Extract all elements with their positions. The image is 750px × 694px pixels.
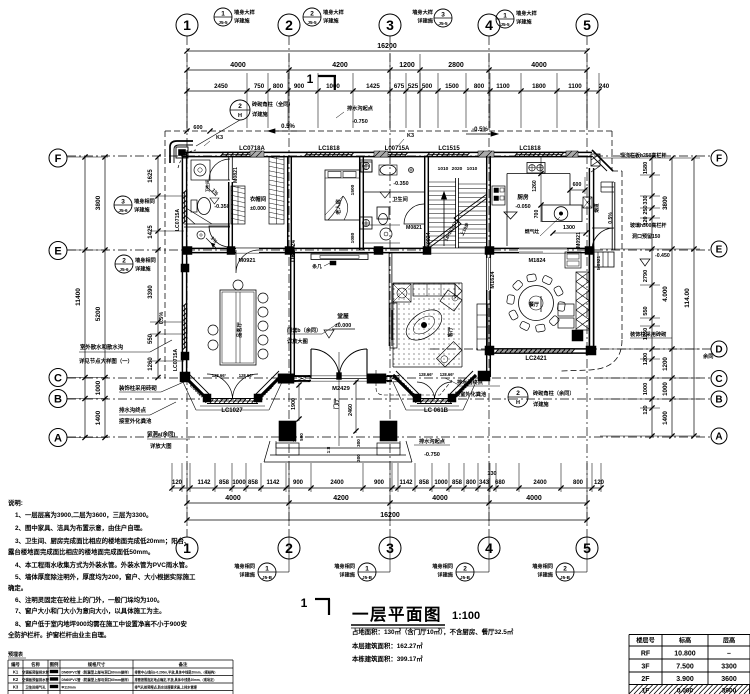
pier E wall 3 <box>285 247 294 255</box>
note yutong right <box>702 352 713 360</box>
kitchen dim 600 <box>567 177 587 194</box>
svg-text:2F: 2F <box>641 676 650 683</box>
svg-text:114.00: 114.00 <box>684 288 691 308</box>
bay1 labels <box>188 383 276 414</box>
svg-text:680: 680 <box>495 480 506 486</box>
section mark 1 top <box>307 72 336 90</box>
pier E wall 7 <box>585 247 594 255</box>
svg-text:1: 1 <box>221 11 225 18</box>
svg-text:洞口预留150: 洞口预留150 <box>632 233 661 240</box>
window LC2421 <box>495 349 574 362</box>
cabinet living dining <box>477 304 488 350</box>
svg-text:1、一层层高为3900,二层为3600，三层为3300。: 1、一层层高为3900,二层为3600，三层为3300。 <box>15 510 152 519</box>
svg-text:卫生间: 卫生间 <box>392 195 408 203</box>
axis bubble C left <box>49 369 67 387</box>
door M0821 bath1 <box>209 159 239 183</box>
bay2 outer sill <box>393 382 476 410</box>
svg-text:预埋表: 预埋表 <box>8 651 24 658</box>
svg-text:条几: 条几 <box>311 263 322 270</box>
svg-text:E: E <box>716 245 723 256</box>
svg-text:2800: 2800 <box>448 62 464 69</box>
door center line <box>338 352 340 446</box>
svg-text:餐厅: 餐厅 <box>528 301 539 308</box>
svg-text:空调板预留排水管: 空调板预留排水管 <box>22 677 50 682</box>
svg-text:-0.5%: -0.5% <box>472 127 488 133</box>
svg-text:0.000: 0.000 <box>677 688 694 694</box>
svg-text:128.66°: 128.66° <box>440 372 455 377</box>
axis line F <box>67 155 711 157</box>
svg-text:RF: RF <box>641 651 651 658</box>
svg-text:2400: 2400 <box>533 480 547 486</box>
area notes <box>352 627 514 663</box>
svg-text:1625: 1625 <box>148 169 154 183</box>
svg-text:DN60PVC管（防漏型上部与洞口60mm做样）: DN60PVC管（防漏型上部与洞口60mm做样） <box>62 677 132 682</box>
decor box living <box>393 284 411 302</box>
chaise living <box>437 342 462 367</box>
detail callout 1/J5-B bottom 1 <box>234 537 289 581</box>
kitchen flue <box>583 197 600 213</box>
label meeting room <box>235 321 243 337</box>
wall dining bottom <box>489 349 594 353</box>
svg-text:-0.350: -0.350 <box>393 181 408 187</box>
wall bath2 stair <box>425 156 429 250</box>
slope right porch <box>608 212 614 224</box>
svg-text:LC1818: LC1818 <box>519 146 541 152</box>
sideboard dining <box>558 304 574 328</box>
shaft box bottom <box>360 217 372 229</box>
svg-text:留洞a(余同): 留洞a(余同) <box>147 430 175 438</box>
bath1 slope arrow <box>206 186 220 197</box>
svg-text:详建施: 详建施 <box>537 571 553 579</box>
label cloakroom <box>250 195 267 212</box>
svg-text:1: 1 <box>365 566 369 573</box>
svg-text:K2: K2 <box>13 677 19 682</box>
svg-text:800: 800 <box>573 480 584 486</box>
svg-text:120: 120 <box>172 480 183 486</box>
axis line 4 <box>488 36 490 537</box>
pier C a <box>278 374 294 384</box>
bath2 sink <box>379 165 397 175</box>
note glass right <box>630 222 666 240</box>
svg-text:1142: 1142 <box>399 480 413 486</box>
svg-text:玻璃h300高栏杆: 玻璃h300高栏杆 <box>630 222 666 229</box>
pier lattice bottom <box>572 330 583 341</box>
east porch steps bottom <box>594 252 614 270</box>
pier C b <box>367 374 386 384</box>
svg-text:厨房: 厨房 <box>517 193 529 201</box>
extension lines right <box>600 158 700 436</box>
svg-text:E: E <box>54 246 61 258</box>
note deco column left <box>118 381 186 392</box>
svg-text:1500: 1500 <box>445 83 459 90</box>
dimension row 16200 bottom <box>184 512 589 523</box>
svg-text:1400: 1400 <box>95 410 102 425</box>
svg-text:砖砌角柱（余同）: 砖砌角柱（余同） <box>533 389 575 397</box>
axis bubble A right <box>711 428 727 444</box>
svg-text:规格尺寸: 规格尺寸 <box>88 661 106 668</box>
svg-text:1100: 1100 <box>568 83 582 90</box>
door M0821 bath2 <box>404 204 424 231</box>
svg-text:3900: 3900 <box>722 688 737 694</box>
svg-text:LC1515: LC1515 <box>438 146 460 152</box>
note drain start top <box>336 104 374 125</box>
bath2 drain <box>409 168 414 173</box>
svg-text:900: 900 <box>374 480 385 486</box>
svg-text:M0821: M0821 <box>406 225 422 231</box>
svg-text:详建施: 详建施 <box>339 571 355 579</box>
pier bay1 win l <box>203 394 211 402</box>
svg-text:300: 300 <box>356 454 361 462</box>
svg-text:全防护栏杆。护窗栏杆由业主自理。: 全防护栏杆。护窗栏杆由业主自理。 <box>7 630 110 639</box>
svg-text:M1824: M1824 <box>528 258 546 264</box>
svg-text:5200: 5200 <box>95 306 102 321</box>
axis bubble 3 top <box>379 14 401 36</box>
svg-text:2: 2 <box>122 258 126 265</box>
svg-text:烟道: 烟道 <box>593 203 600 213</box>
wall E interior <box>182 248 594 252</box>
rug living <box>401 304 448 347</box>
svg-text:楼层号: 楼层号 <box>636 637 655 645</box>
svg-text:确定。: 确定。 <box>8 583 27 592</box>
svg-text:11400: 11400 <box>75 288 82 306</box>
svg-text:858: 858 <box>219 480 230 486</box>
detail callout 2/J5-B bottom 3 <box>432 537 489 581</box>
svg-text:1: 1 <box>307 72 314 86</box>
svg-text:1200: 1200 <box>399 62 415 69</box>
pier bay2 right <box>478 371 490 381</box>
pier dining se <box>586 346 596 355</box>
svg-text:1010: 1010 <box>467 166 478 172</box>
wall hall front <box>294 376 392 381</box>
general notes text <box>7 498 196 639</box>
bedroom dim 1080 <box>350 184 356 243</box>
svg-text:343: 343 <box>479 480 490 486</box>
svg-text:一层平面图: 一层平面图 <box>352 605 442 624</box>
note hole left <box>147 430 190 450</box>
svg-text:525: 525 <box>408 83 419 90</box>
svg-text:2: 2 <box>285 17 293 33</box>
dimension row 16200 top <box>184 43 589 54</box>
label kitchen <box>504 193 531 219</box>
axis bubble 2 top <box>278 14 300 36</box>
pier bay1 left <box>180 372 190 382</box>
svg-text:排管中心线向s-0.200m,平放,具体中线是20mm,（视: 排管中心线向s-0.200m,平放,具体中线是20mm,（视结构） <box>135 670 218 675</box>
opening DK0924 <box>426 232 432 251</box>
svg-text:LC0715A: LC0715A <box>173 349 179 371</box>
pier bay1 win r <box>254 394 262 402</box>
svg-text:4、本工程雨水收集方式为外装水管。外装水管为PVC雨水管。: 4、本工程雨水收集方式为外装水管。外装水管为PVC雨水管。 <box>15 560 191 569</box>
svg-text:5、墙体厚度除注明外，厚度均为200，窗户、大小根据实际施工: 5、墙体厚度除注明外，厚度均为200，窗户、大小根据实际施工 <box>15 572 196 581</box>
detail callout 3/J5-6 left <box>114 196 155 214</box>
svg-text:J5-6: J5-6 <box>118 208 128 213</box>
sofa corner <box>440 290 462 311</box>
axis line B <box>67 398 711 400</box>
detail callout 2/J5-B bottom 4 <box>532 537 587 581</box>
svg-text:550: 550 <box>643 306 649 315</box>
svg-text:M0921: M0921 <box>596 256 601 270</box>
svg-text:排气孔按预埋点,防水处理要求高,上排水管理: 排气孔按预埋点,防水处理要求高,上排水管理 <box>135 685 198 690</box>
svg-text:4200: 4200 <box>333 495 349 502</box>
svg-text:1260: 1260 <box>148 357 154 371</box>
svg-text:标高: 标高 <box>678 637 691 645</box>
svg-text:C: C <box>54 373 62 385</box>
window sill hatch a <box>250 151 264 157</box>
note railing right <box>620 152 666 159</box>
svg-text:详建施: 详建施 <box>323 17 339 25</box>
svg-text:700: 700 <box>534 210 540 219</box>
svg-text:1425: 1425 <box>148 225 154 239</box>
svg-text:1260: 1260 <box>532 180 538 192</box>
svg-text:DN60PVC管（防漏型上部与洞口60mm做样）: DN60PVC管（防漏型上部与洞口60mm做样） <box>62 670 132 675</box>
bay1 wall right diag <box>255 371 282 399</box>
wall bedroom shaft <box>360 156 364 250</box>
svg-text:1000: 1000 <box>232 480 246 486</box>
svg-text:K3: K3 <box>13 685 19 690</box>
window LC1818 b <box>514 146 563 157</box>
svg-text:B: B <box>54 394 62 406</box>
svg-text:DK0924: DK0924 <box>426 232 432 251</box>
svg-text:装饰柱采用砖砌: 装饰柱采用砖砌 <box>630 330 666 338</box>
axis bubble 5 top <box>576 14 598 36</box>
bath1 sink <box>191 160 210 180</box>
svg-text:本栋建筑面积：399.17㎡: 本栋建筑面积：399.17㎡ <box>352 654 423 663</box>
svg-text:1: 1 <box>183 17 191 33</box>
svg-text:1: 1 <box>301 596 308 610</box>
svg-text:128.66°: 128.66° <box>239 373 254 378</box>
svg-text:M0921: M0921 <box>576 232 582 248</box>
svg-text:4: 4 <box>485 17 493 33</box>
door M0921 kitchen <box>576 228 614 250</box>
bay1 wall left diag <box>183 371 210 399</box>
svg-text:墙身相同: 墙身相同 <box>135 256 156 264</box>
svg-text:858: 858 <box>248 480 259 486</box>
dimension col 3 right <box>643 155 655 438</box>
svg-text:750: 750 <box>254 83 265 90</box>
svg-text:K3: K3 <box>407 133 414 139</box>
svg-text:3: 3 <box>121 199 125 206</box>
living room carpet dots <box>393 283 459 364</box>
svg-text:1142: 1142 <box>197 480 211 486</box>
svg-text:详建施: 详建施 <box>234 17 250 25</box>
floor level table <box>629 635 750 694</box>
svg-text:F: F <box>716 154 722 165</box>
bath2 level <box>393 181 408 187</box>
dimension row A bottom <box>169 471 604 491</box>
svg-text:2、图中家具、洁具为布置示意，由住户自理。: 2、图中家具、洁具为布置示意，由住户自理。 <box>15 523 146 532</box>
svg-text:J5-B: J5-B <box>560 575 571 580</box>
section mark 1 bottom <box>301 596 330 615</box>
kitchen dim 1300 <box>550 225 588 236</box>
svg-text:详放大图: 详放大图 <box>150 442 172 450</box>
svg-text:C: C <box>715 374 722 385</box>
meeting table and chairs <box>208 280 268 365</box>
svg-text:1500: 1500 <box>350 184 356 195</box>
opening M0921 hall <box>236 248 259 273</box>
svg-text:J5-5: J5-5 <box>438 21 448 26</box>
wall living dining divider <box>487 252 491 377</box>
svg-text:2460: 2460 <box>348 404 354 416</box>
svg-text:1200: 1200 <box>662 357 669 371</box>
svg-text:A: A <box>715 432 722 443</box>
svg-text:0.5%: 0.5% <box>159 312 165 325</box>
svg-text:图例: 图例 <box>50 661 59 668</box>
porch column right <box>377 421 400 455</box>
svg-text:墙身相同: 墙身相同 <box>532 562 553 570</box>
stair dims <box>438 166 478 242</box>
dimension row 3 top <box>184 83 609 94</box>
extension lines top <box>187 54 599 128</box>
svg-text:详放大图: 详放大图 <box>287 337 308 345</box>
svg-text:A: A <box>54 433 62 445</box>
svg-text:128.66°: 128.66° <box>212 373 227 378</box>
axis bubble 2 bottom <box>278 537 300 559</box>
axis bubble 3 bottom <box>379 537 401 559</box>
level mark -0.450 right <box>640 253 670 266</box>
svg-text:900: 900 <box>294 83 305 90</box>
detail callout 2/J5-5 top <box>303 8 345 26</box>
kitchen counter <box>507 157 570 246</box>
bath1 toilet <box>191 198 211 215</box>
label bath2 <box>392 195 408 203</box>
laundry room <box>197 231 219 248</box>
bath2 divider <box>364 225 400 243</box>
svg-text:500: 500 <box>299 433 304 441</box>
bay2 arcs <box>417 372 455 400</box>
sofa top <box>413 284 462 298</box>
dimension col 11400 right <box>684 155 697 438</box>
svg-text:M0821: M0821 <box>233 167 239 183</box>
svg-text:1F: 1F <box>642 688 650 694</box>
svg-text:7、窗户大小和门大小为意向大小，以具体施工为主。: 7、窗户大小和门大小为意向大小，以具体施工为主。 <box>15 606 166 615</box>
label stove <box>525 217 560 236</box>
svg-text:品茗厅: 品茗厅 <box>235 321 243 337</box>
svg-text:详建施: 详建施 <box>239 571 255 579</box>
svg-text:4000: 4000 <box>526 495 542 502</box>
detail callout 1/J5-5 top a <box>214 8 256 26</box>
wall stair kitchen <box>487 156 491 250</box>
svg-text:J5-B: J5-B <box>362 575 373 580</box>
svg-text:3300: 3300 <box>721 664 737 671</box>
dimension col 3 left <box>148 154 161 380</box>
exterior wall left upper <box>182 152 186 376</box>
svg-text:600: 600 <box>573 182 582 188</box>
svg-text:墙身大样: 墙身大样 <box>412 8 434 16</box>
svg-text:900: 900 <box>293 480 304 486</box>
pier bay2 win r <box>448 394 456 402</box>
note apron left <box>79 340 172 365</box>
svg-text:800: 800 <box>474 83 485 90</box>
wall bath1 partition <box>184 224 230 227</box>
svg-text:2: 2 <box>463 566 467 573</box>
sideboard hall <box>311 254 368 270</box>
svg-text:3: 3 <box>386 17 394 33</box>
svg-text:800: 800 <box>466 480 477 486</box>
sill window porch b <box>387 375 399 382</box>
note deco column right <box>630 330 672 338</box>
svg-text:J5-5: J5-5 <box>500 22 510 27</box>
wall bath1 cloak <box>229 156 233 250</box>
porch dims small <box>292 431 361 461</box>
svg-text:2: 2 <box>563 566 567 573</box>
svg-text:H: H <box>238 113 242 119</box>
note drain left <box>119 402 176 425</box>
svg-text:128.66°: 128.66° <box>419 372 434 377</box>
svg-text:5: 5 <box>583 17 591 33</box>
pier E wall 1 <box>183 247 192 255</box>
laundry door <box>209 226 230 247</box>
bay2 wall right diag <box>449 371 476 399</box>
svg-text:4.000: 4.000 <box>662 286 669 302</box>
east porch edge <box>601 182 615 250</box>
svg-text:H: H <box>516 400 520 406</box>
svg-text:墙身相同: 墙身相同 <box>334 562 355 570</box>
opening M1624 <box>487 258 496 290</box>
svg-text:墙身大样: 墙身大样 <box>234 8 256 16</box>
bath1 level <box>210 198 230 210</box>
svg-text:LC2421: LC2421 <box>525 356 547 362</box>
svg-text:M1624: M1624 <box>490 271 496 289</box>
window LC0715A top <box>384 146 410 157</box>
window LC1818 a <box>304 146 353 157</box>
lattice column dining <box>576 272 589 330</box>
svg-text:卫生间排气孔: 卫生间排气孔 <box>25 685 46 690</box>
svg-text:K3: K3 <box>216 135 223 141</box>
svg-text:2: 2 <box>238 103 242 110</box>
pier dining sw <box>485 346 494 355</box>
pier E wall 5 <box>423 247 431 255</box>
roof overhang dashed outline <box>165 131 622 378</box>
svg-text:M0921: M0921 <box>238 258 255 264</box>
svg-text:详建施: 详建施 <box>516 18 532 26</box>
svg-text:-0.050: -0.050 <box>515 204 530 210</box>
dimension col 2 right <box>662 155 675 438</box>
svg-text:占地面积：130㎡（含门厅10㎡），不含厨房、餐厅32.5㎡: 占地面积：130㎡（含门厅10㎡），不含厨房、餐厅32.5㎡ <box>352 627 514 636</box>
callout 2/H top left <box>196 100 294 146</box>
svg-text:LC1027: LC1027 <box>221 408 243 414</box>
opening DK1024 <box>288 190 297 262</box>
svg-text:本层建筑面积：162.27㎡: 本层建筑面积：162.27㎡ <box>352 641 423 650</box>
svg-text:3.900: 3.900 <box>676 676 694 683</box>
svg-text:1080: 1080 <box>350 232 356 243</box>
svg-text:墙身相同: 墙身相同 <box>134 197 155 205</box>
svg-text:0.5%: 0.5% <box>608 212 614 224</box>
axis bubble 1 top <box>176 14 198 36</box>
svg-text:墙身相同: 墙身相同 <box>234 562 255 570</box>
svg-text:1000: 1000 <box>95 380 102 395</box>
svg-text:4000: 4000 <box>432 495 448 502</box>
svg-text:室外散水和散水沟: 室外散水和散水沟 <box>80 343 124 351</box>
svg-text:1: 1 <box>265 566 269 573</box>
svg-text:120: 120 <box>594 480 605 486</box>
label porch <box>332 398 340 409</box>
bath2 washer <box>380 228 392 240</box>
svg-text:F: F <box>55 153 62 165</box>
stairs <box>429 178 487 248</box>
svg-text:D: D <box>715 345 722 356</box>
wardrobe left <box>231 186 245 224</box>
axis bubble E left <box>49 242 67 260</box>
bath1 shower tri <box>186 208 212 224</box>
svg-text:接室外化粪池: 接室外化粪池 <box>455 390 487 398</box>
opening stair hall <box>430 248 487 253</box>
svg-text:1400: 1400 <box>662 411 669 425</box>
window LC0718A <box>220 146 265 157</box>
svg-text:老人房: 老人房 <box>334 199 342 216</box>
svg-text:3800: 3800 <box>95 195 102 210</box>
svg-text:600: 600 <box>193 125 202 131</box>
svg-text:详建施: 详建施 <box>135 265 151 273</box>
wardrobe right <box>269 157 284 224</box>
